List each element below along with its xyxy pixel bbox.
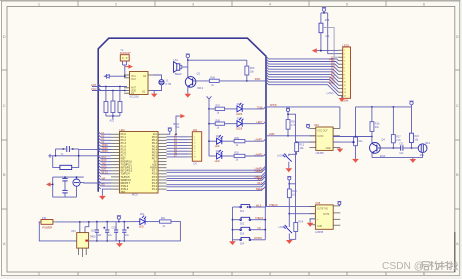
svg-text:R05: R05: [210, 76, 215, 79]
IC U05 receiver module: [315, 205, 333, 229]
svg-text:INT0: INT0: [102, 166, 108, 168]
wire right branch to pin2: [328, 13, 339, 54]
bus main outline: [98, 38, 266, 206]
svg-text:CK: CK: [193, 162, 197, 166]
power arrow left: [46, 182, 51, 186]
wire R06 vertical: [246, 60, 248, 81]
svg-text:ADR1: ADR1: [102, 144, 109, 147]
svg-text:(+5V): (+5V): [327, 91, 334, 95]
wire stub out2: [333, 141, 353, 143]
svg-text:S04: S04: [240, 243, 245, 246]
svg-text:VCC OUT: VCC OUT: [317, 131, 328, 133]
svg-text:D: D: [3, 34, 6, 39]
wire mic bottom to gnd rail: [422, 153, 424, 158]
wire bottoms to ground: [289, 232, 295, 240]
U04 pins: [309, 129, 340, 148]
svg-text:RST: RST: [102, 157, 107, 159]
svg-text:LS1: LS1: [174, 59, 179, 62]
svg-text:MK1: MK1: [425, 142, 431, 145]
svg-text:WLS: WLS: [256, 204, 262, 207]
wire to U01 pin1: [110, 75, 125, 77]
wire R15 to ground: [355, 146, 357, 159]
svg-text:LED1: LED1: [343, 44, 350, 48]
wire from resistor to pin3: [323, 28, 339, 58]
photoresistor LIGHT2: [283, 225, 292, 233]
svg-text:LIGHT1: LIGHT1: [277, 155, 286, 158]
LED D01 power indicator: [140, 216, 146, 225]
svg-text:B: B: [456, 172, 459, 177]
wire to ground: [288, 162, 290, 169]
resistor R05: [209, 79, 219, 82]
wire down to U04 right pin1: [339, 107, 341, 129]
ground arrow below Q2: [185, 94, 192, 98]
power port arrow right: [128, 64, 133, 68]
wire right rail of buttons: [264, 207, 266, 240]
svg-text:SC2262: SC2262: [130, 95, 140, 99]
bus entries right side to LED connector wires: [266, 56, 269, 84]
row1: wire - resistor R07 - LED D05: [209, 108, 215, 110]
svg-text:C11: C11: [399, 142, 404, 145]
resistor R02: [319, 23, 323, 33]
port glyph: [48, 154, 52, 158]
capacitor C01: [95, 230, 99, 232]
svg-text:U05: U05: [315, 201, 320, 205]
ground arrow below MCU: [99, 189, 111, 200]
svg-text:L08F: L08F: [269, 133, 275, 136]
glyph ji: [449, 261, 457, 270]
wire left rail: [232, 207, 234, 241]
connector pins: [339, 50, 343, 95]
svg-text:POWER: POWER: [42, 225, 52, 229]
svg-text:CHK8: CHK8: [270, 104, 277, 107]
svg-text:D01: D01: [140, 213, 145, 216]
electrolytic capacitor C02: [103, 227, 109, 233]
crystal module Y2 SONGST: [120, 55, 129, 61]
svg-text:R10: R10: [235, 152, 240, 155]
node junctions: [52, 184, 54, 186]
antenna style VCC glyph: [207, 96, 212, 102]
MCU pins left: [111, 134, 120, 189]
wire R12 bottom to LDR: [289, 152, 297, 156]
wire top rail: [356, 106, 412, 108]
svg-text:WLS1: WLS1: [102, 172, 109, 174]
svg-text:RD: RD: [102, 185, 106, 187]
svg-text:CHECK: CHECK: [269, 204, 278, 207]
ground arrow below rail: [229, 241, 236, 245]
MCU pin names inside: [121, 132, 133, 194]
svg-text:A: A: [3, 241, 6, 246]
push button S04: [233, 237, 266, 240]
svg-text:LAMP1: LAMP1: [255, 139, 264, 142]
wire left branch down to rail: [320, 13, 322, 51]
svg-text:A: A: [456, 241, 459, 246]
wire VCC rail to R06: [188, 59, 247, 61]
power port at U04 pin1: [306, 124, 310, 128]
wire bundle bus to LED connector: [269, 59, 339, 96]
wire CHECK from bus to U05 pin1: [266, 206, 315, 208]
power port VCC: [287, 177, 291, 190]
capacitor C07: [62, 178, 67, 181]
svg-text:9013: 9013: [197, 86, 203, 90]
MAIN SCHEMATIC CONTENT INSERTED BELOW: [39, 8, 431, 258]
resistor R14 at long vertical bottom: [294, 223, 298, 232]
svg-text:GND: GND: [326, 148, 331, 150]
net labels left of MCU: [102, 133, 109, 187]
svg-text:104: 104: [399, 152, 404, 155]
svg-text:WLS: WLS: [257, 182, 263, 185]
MCU pins right: [158, 134, 167, 189]
bias resistor R18 (mic): [410, 133, 414, 142]
svg-text:Vss: Vss: [121, 190, 126, 194]
resistor R13: [287, 189, 291, 198]
wire R05 to bus: [219, 80, 266, 82]
svg-text:D07: D07: [216, 136, 221, 138]
power port at U05 right pin1: [338, 202, 342, 206]
wire cap to mic: [403, 147, 418, 149]
svg-text:DOWN: DOWN: [254, 237, 262, 240]
resistor RA1: [104, 102, 108, 113]
glyph chu: [429, 261, 439, 270]
ground arrow: [286, 168, 293, 172]
resistor RA2: [111, 101, 115, 113]
svg-text:B: B: [3, 172, 6, 177]
svg-text:BEEP: BEEP: [256, 188, 263, 191]
push button S02: [233, 217, 266, 220]
svg-text:TXD: TXD: [102, 163, 107, 165]
svg-text:R07: R07: [216, 105, 221, 108]
wire SONGST pins down: [123, 61, 127, 76]
svg-text:4K8: 4K8: [325, 19, 330, 22]
microphone MK1: [418, 144, 427, 153]
resistor R15: [354, 137, 358, 146]
power port VCC: [186, 54, 190, 60]
wire into U05 pin2: [289, 213, 315, 215]
wire VCC split: [321, 12, 328, 14]
svg-text:GND: GND: [317, 226, 322, 228]
svg-text:RXD: RXD: [255, 77, 261, 81]
U05 pins: [309, 206, 340, 225]
photoresistor LIGHT1: [283, 154, 292, 162]
svg-text:C03: C03: [112, 228, 117, 230]
svg-text:L01: L01: [329, 58, 334, 61]
wire emitter down to gnd rail: [371, 153, 373, 158]
svg-text:TEST: TEST: [256, 178, 263, 181]
svg-text:OUT0 TX0: OUT0 TX0: [317, 209, 329, 211]
resistor R17 2.2k: [391, 135, 395, 143]
svg-text:D: D: [456, 34, 459, 39]
svg-text:LM358: LM358: [315, 230, 323, 234]
row2: wire - resistor R08 - LED D06: [209, 123, 215, 125]
wire rail to connector pin1: [317, 50, 339, 52]
svg-text:CSDN @: CSDN @: [382, 261, 424, 272]
ground arrow: [352, 159, 359, 163]
svg-text:C01: C01: [91, 230, 96, 232]
ground arrow at U04 right pin4: [337, 147, 344, 152]
wire gnd rail: [372, 157, 423, 159]
wire joining resistor bottoms: [106, 113, 120, 120]
resistor RA3: [118, 102, 122, 113]
resistor R16 20k: [370, 122, 374, 132]
ground arrow: [286, 240, 293, 244]
ground arrow below bottom rail: [116, 241, 123, 247]
wire R13 down: [288, 198, 290, 227]
U01 pins: [124, 75, 154, 93]
ground arrow mic circuit: [410, 158, 417, 163]
push button S01: [233, 205, 266, 208]
wire base: [377, 147, 401, 149]
resistor R11 4.7k: [286, 120, 290, 130]
svg-text:LIGHT2: LIGHT2: [279, 226, 288, 229]
electrolytic capacitor C04: [122, 227, 129, 233]
svg-text:CHECK: CHECK: [255, 217, 264, 220]
svg-text:U03: U03: [71, 230, 76, 233]
svg-text:INT1: INT1: [102, 169, 108, 171]
svg-text:R08: R08: [216, 119, 221, 122]
speaker LS1: [174, 62, 180, 73]
svg-text:MCU: MCU: [132, 193, 138, 197]
connector P01 POWER: [41, 220, 53, 225]
net labels at connector wires: [329, 56, 335, 85]
svg-text:ADR3: ADR3: [102, 150, 109, 153]
electrolytic cap C09: [73, 179, 80, 186]
svg-text:A21: A21: [110, 118, 115, 122]
svg-text:C: C: [456, 103, 459, 108]
row4: LED D08 - resistor R10: [209, 155, 217, 157]
power port arrow right at MCU Vcc branch: [173, 114, 185, 135]
svg-text:D05: D05: [237, 104, 242, 106]
wire power loop: [39, 222, 181, 241]
crystal Y1 circle: [159, 80, 164, 85]
svg-text:7805: 7805: [90, 235, 96, 239]
node junctions on address rows: [105, 86, 107, 88]
wire from U04 out to transistor area: [333, 136, 372, 138]
transistor Q2: [185, 60, 196, 87]
wire left branch down: [355, 107, 357, 137]
svg-text:J03: J03: [193, 128, 198, 132]
svg-text:LED: LED: [139, 225, 144, 228]
wire columns down to resistors: [106, 87, 120, 102]
svg-text:C: C: [3, 103, 6, 108]
wire address lines row1: [92, 86, 127, 88]
connector CON1 LED module: [343, 47, 351, 98]
transistor Q4: [370, 143, 381, 155]
svg-text:R01: R01: [161, 217, 166, 220]
svg-text:OUT2: OUT2: [317, 136, 324, 138]
node junctions: [62, 148, 64, 150]
svg-text:XC2: XC2: [131, 78, 136, 81]
op-amp U01 RF chip: [130, 72, 149, 95]
svg-text:S02: S02: [240, 223, 245, 226]
resistor R12 10k: [295, 143, 299, 152]
bus entries left vertical to MCU rows: [98, 84, 101, 189]
svg-text:R09: R09: [235, 137, 240, 140]
capacitor C06: [67, 146, 70, 152]
glyph qi: [422, 262, 430, 270]
svg-text:BEEP: BEEP: [175, 72, 182, 76]
node junctions on power rails: [79, 221, 81, 223]
svg-text:LAMP2: LAMP2: [255, 170, 264, 173]
darker lower right inner border segment: [454, 232, 456, 272]
watermark CSDN: [382, 261, 458, 272]
svg-text:Q2: Q2: [197, 72, 201, 76]
wire crystal loop: [154, 75, 162, 91]
power port above MCU right: [167, 128, 172, 134]
svg-text:U02: U02: [120, 128, 126, 132]
svg-text:LED7: LED7: [257, 121, 264, 124]
ground arrow below U01: [151, 91, 158, 98]
wire into U04 pin3 with R12 pullup: [297, 141, 316, 143]
wire branch to second vertical: [289, 183, 295, 185]
wire address lines row2: [92, 90, 124, 92]
svg-text:DG3: DG3: [329, 82, 335, 85]
svg-text:6.7M: 6.7M: [166, 83, 172, 86]
svg-text:LED: LED: [215, 145, 220, 148]
push button S03: [233, 227, 266, 230]
node branch to long vertical: [288, 114, 296, 222]
power rail vertical: [208, 102, 210, 156]
wires bus to MCU left pins: [101, 134, 111, 186]
svg-text:LED5: LED5: [236, 113, 243, 116]
row3: LED D07 - resistor R09: [209, 140, 217, 142]
resistor R01: [160, 220, 172, 223]
svg-text:ANT: ANT: [91, 83, 97, 87]
resistor R06: [245, 66, 249, 75]
wire emitter to ground: [187, 86, 189, 93]
wire top loop: [52, 149, 111, 167]
svg-text:TX08: TX08: [257, 106, 263, 109]
power port VCC right top: [409, 101, 413, 107]
svg-text:LED6: LED6: [236, 128, 243, 131]
ground arrow below connector: [339, 96, 346, 102]
svg-text:LAMP2: LAMP2: [255, 153, 264, 156]
regulator U03 7805: [80, 222, 89, 233]
svg-text:D08: D08: [216, 151, 221, 153]
svg-text:D06: D06: [237, 119, 242, 121]
IC U04 receiver module: [316, 127, 333, 150]
power port VCC above caps: [117, 216, 121, 222]
glyph ke: [439, 261, 450, 270]
svg-text:P01: P01: [42, 216, 47, 220]
wire base to R05: [193, 80, 210, 82]
net labels near bus: [254, 168, 263, 191]
wire speaker to collector: [180, 65, 188, 68]
antenna port glyph left of U01: [105, 74, 110, 79]
wire L08F from bus to U04 pin2: [266, 135, 316, 137]
J03 pins: [189, 137, 193, 157]
svg-text:RXD: RXD: [102, 160, 107, 162]
net labels MCU to J03: [174, 135, 178, 157]
capacitor C11 coupling: [401, 145, 403, 150]
svg-text:WR: WR: [102, 179, 106, 181]
wire R11 bottom to net wire: [287, 129, 289, 136]
svg-text:R14: R14: [299, 220, 304, 223]
svg-text:LM358: LM358: [316, 151, 324, 155]
svg-text:UP: UP: [258, 227, 262, 230]
capacitor C08: [62, 190, 67, 193]
svg-text:S03: S03: [240, 233, 245, 236]
wires MCU to J03: [167, 137, 189, 157]
power port VCC over R02b: [286, 108, 290, 120]
svg-text:LED: LED: [215, 160, 220, 163]
svg-text:VCC: VCC: [91, 87, 97, 91]
crystal Y3: [60, 165, 72, 169]
svg-text:S01: S01: [240, 210, 245, 213]
power port arrow left: [312, 48, 317, 53]
svg-text:Y01: Y01: [175, 126, 180, 129]
wire top rail from bus: [266, 106, 340, 108]
svg-text:P2.1: P2.1: [152, 187, 158, 191]
ground arrow at U05 left pin3: [307, 219, 316, 227]
capacitor C03: [114, 230, 118, 232]
svg-text:I/O: I/O: [131, 92, 134, 95]
svg-text:U04: U04: [314, 123, 319, 127]
svg-text:OUT0: OUT0: [323, 214, 330, 216]
power port VCC top right: [322, 8, 326, 13]
